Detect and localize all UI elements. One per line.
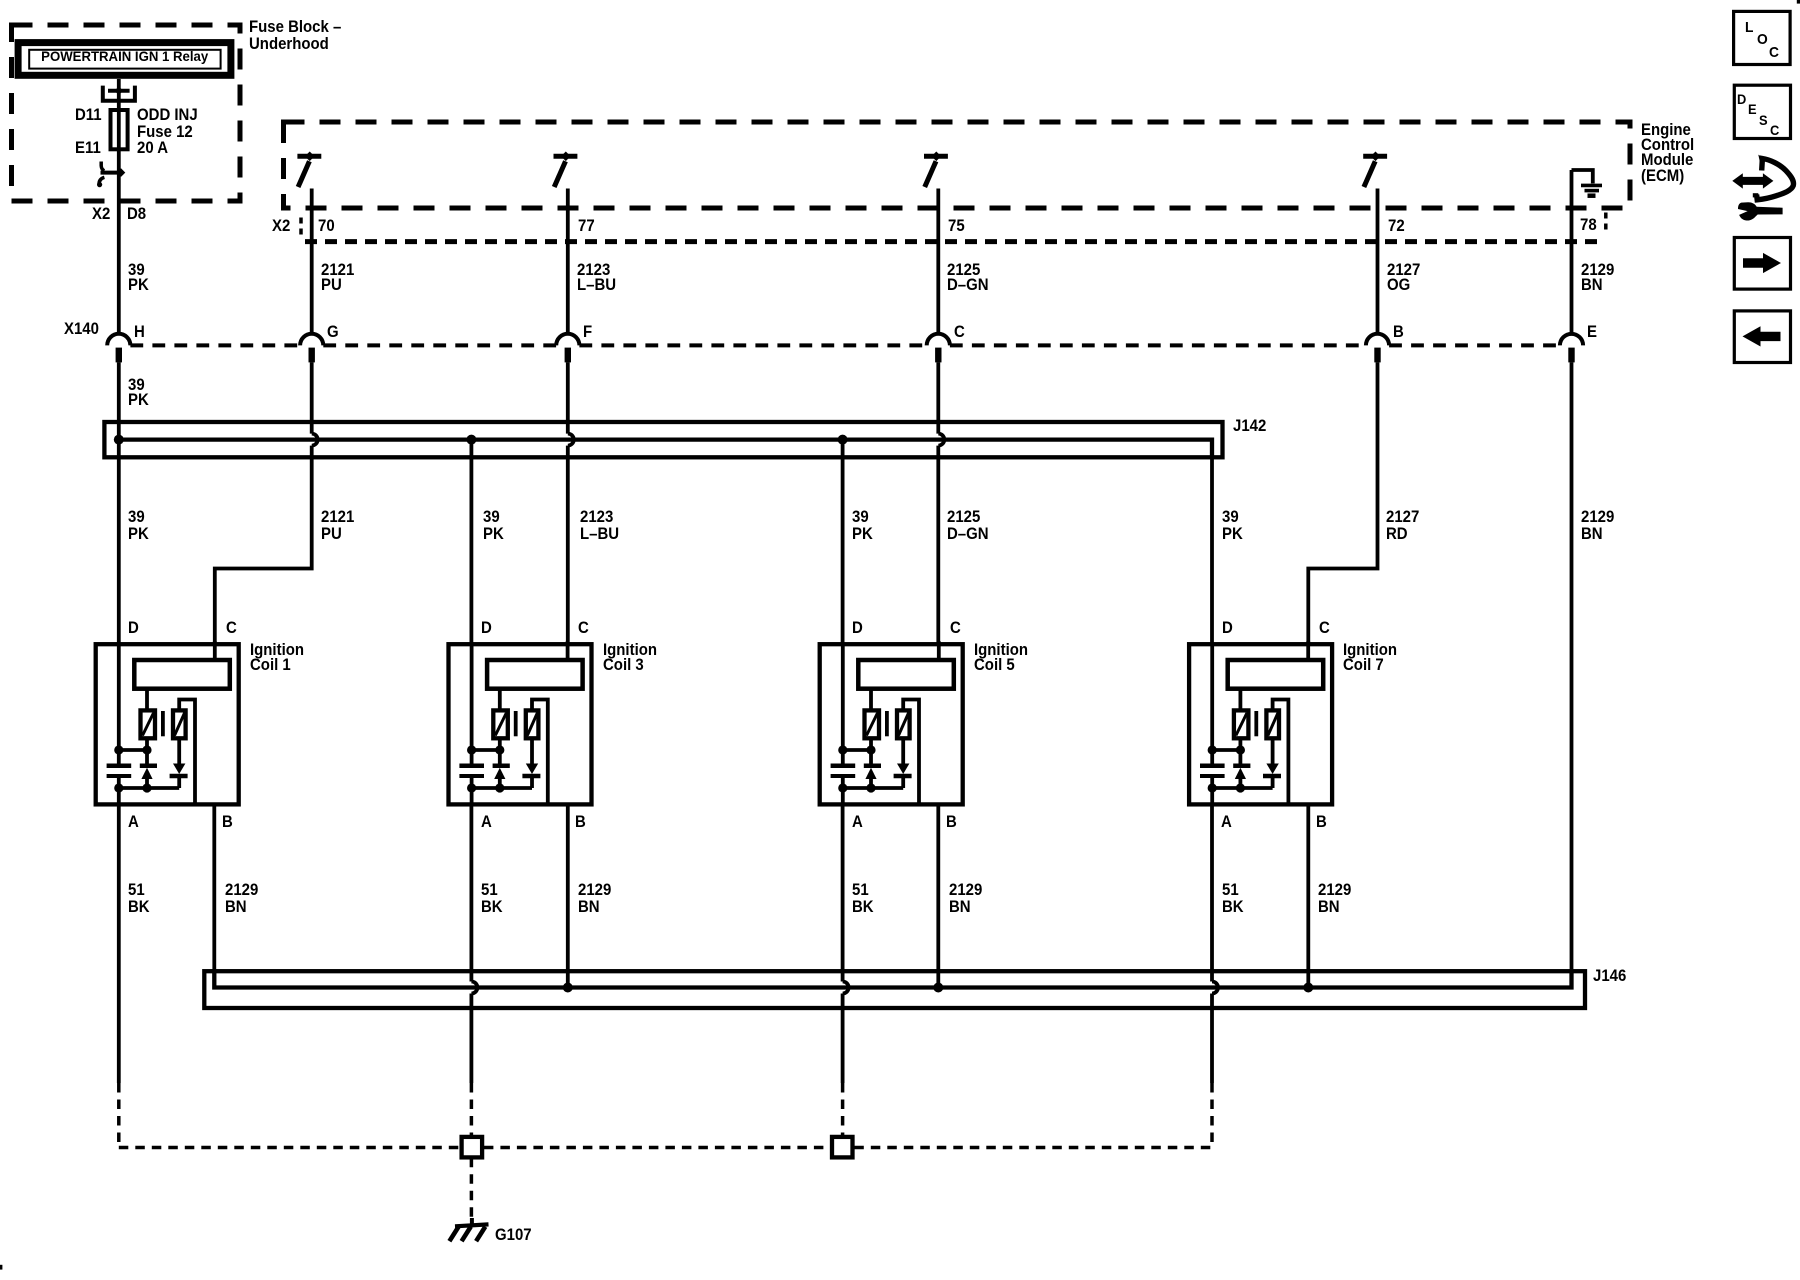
splice pack J142 housing <box>104 422 1222 457</box>
ignition coil 7 zener diode <box>1233 764 1250 769</box>
ignition coil 1 pin A internal wire <box>117 776 121 804</box>
wire 2127 OG pin 72 to X140 B <box>1376 189 1380 335</box>
wire 51 BK ignition coil 7 pin A to J146 crossover <box>1210 804 1214 981</box>
connector X140 pin F mating terminal stub <box>565 348 571 363</box>
ignition coil 7 pin C internal wire <box>1306 641 1310 662</box>
ignition coil 5 secondary winding L2 <box>897 710 910 738</box>
label: Ignition Coil 7 <box>1343 642 1397 673</box>
ignition coil 1 secondary winding L2 <box>173 710 186 738</box>
label: wire 39 PK (coil5 D) <box>852 509 873 542</box>
ignition coil 1 zener diode <box>140 764 157 769</box>
label: POWERTRAIN IGN 1 Relay <box>32 50 218 64</box>
splice pack J146 housing <box>204 971 1585 1008</box>
label: wire 2127 RD (coil7 C) <box>1386 509 1419 542</box>
junction coil 3 pin B at J146 <box>563 983 573 993</box>
ignition coil 3 zener diode <box>493 764 510 769</box>
LOC hotspot box <box>1734 11 1791 64</box>
ignition coil 5 primary bottom lead <box>869 738 873 766</box>
ignition coil 5 case <box>820 644 963 804</box>
connector X140 pin B half-circle terminal <box>1366 334 1389 346</box>
label: wire 51 BK coil 3 <box>481 882 503 915</box>
wire 2123 L-BU X140 F to J142 crossover <box>566 362 570 433</box>
label: wire 2129 BN (right) <box>1581 509 1614 542</box>
label: X2 (fuse block) <box>92 206 110 223</box>
J142 crossover hop of wire 2121 PU <box>312 434 318 446</box>
label: ignition coil 1 pin D <box>128 620 139 637</box>
ECM output driver for pin 70 <box>297 154 321 159</box>
ignition coil 3 capacitor <box>459 764 484 769</box>
ignition coil 1 primary module block <box>134 660 230 689</box>
junction of 39 PK feed at J142 <box>114 435 124 445</box>
wire 51 BK ignition coil 1 pin A down <box>117 804 121 1083</box>
label: wire 2121 PU (top) <box>321 262 354 293</box>
ignition coil 3 secondary winding L2 <box>526 710 539 738</box>
page corner mark top right <box>1797 0 1800 4</box>
J146 crossover hop of coil 3 51 BK <box>471 982 477 994</box>
label: wire 2127 OG (top) <box>1387 262 1420 293</box>
label: wire 51 BK coil 7 <box>1222 882 1244 915</box>
page corner mark bottom left <box>0 1265 2 1270</box>
label: ODD INJ Fuse 12 20 A <box>137 107 198 156</box>
connector X140 pin G half-circle terminal <box>300 334 323 346</box>
label: Fuse Block - Underhood <box>249 19 341 52</box>
wire 2125 D-GN to ignition coil 5 pin C <box>936 446 940 645</box>
back arrow glyph <box>1743 326 1781 346</box>
ignition coil 7 pin A internal wire <box>1210 776 1214 804</box>
label: ignition coil 3 pin A <box>481 814 492 831</box>
wire 39 PK J142 to ignition coil 3 pin D <box>469 440 473 645</box>
wire 2129 BN ignition coil 7 pin B to J146 <box>1306 804 1310 987</box>
label: ECM pin 72 <box>1388 218 1405 235</box>
dashed ground rail <box>119 1146 1212 1150</box>
splice pack J146 bus bar <box>214 969 1571 987</box>
ignition coil 1 primary winding lead <box>145 689 149 711</box>
junction tap to ignition coil 3 pin D <box>466 435 476 445</box>
label: wire 2123 L-BU (coil3 C) <box>580 509 619 542</box>
ignition coil 5 primary module block <box>858 660 954 689</box>
ignition coil 3 primary winding L1 <box>493 710 508 738</box>
label: wire 39 PK (coil3 D) <box>483 509 504 542</box>
connector X140 pin E half-circle terminal <box>1560 334 1583 346</box>
ignition coil 5 upper junction rail <box>843 748 871 752</box>
X2 connector left tick <box>299 218 303 237</box>
label: X140 pin B <box>1393 324 1404 341</box>
label: Ignition Coil 3 <box>603 642 657 673</box>
ignition coil 7 pin D internal wire <box>1210 644 1214 766</box>
label: wire 39 PK (top) <box>128 262 149 293</box>
back arrow hotspot box <box>1734 311 1790 363</box>
ignition coil 7 primary winding L1 <box>1234 710 1249 738</box>
ignition coil 5 core <box>885 711 889 736</box>
label: ignition coil 1 pin A <box>128 814 139 831</box>
ignition coil 5 lower junction rail <box>843 786 903 790</box>
wire 2123 L-BU pin 77 to X140 F <box>566 189 570 335</box>
label: Ignition Coil 5 <box>974 642 1028 673</box>
ignition coil 1 secondary diode <box>177 738 181 764</box>
ignition coil 1 secondary output lead to pin B <box>179 700 195 805</box>
diagnostic arrows and wrench icon <box>1732 155 1793 221</box>
wire 2129 BN ignition coil 5 pin B to J146 <box>936 804 940 987</box>
ignition coil 7 capacitor <box>1200 764 1225 769</box>
ignition coil 1 case <box>96 644 239 804</box>
wire 2121 PU pin 70 to X140 G <box>310 189 314 335</box>
label: fuse pin E11 <box>75 140 101 157</box>
ignition coil 5 primary winding L1 <box>865 710 880 738</box>
ignition coil 3 secondary output lead to pin B <box>532 700 548 805</box>
label: splice pack J146 <box>1593 968 1626 985</box>
connector X140 pin G mating terminal stub <box>309 348 315 363</box>
dashed ground wire from coil 5 pin A <box>841 1083 845 1137</box>
ignition coil 5 capacitor <box>831 764 856 769</box>
label: ignition coil 3 pin C <box>578 620 589 637</box>
label: X140 pin G <box>327 324 339 341</box>
wire 2127 RD X140 B dogleg to ignition coil 7 pin C <box>1308 362 1377 644</box>
ignition coil 1 <box>96 641 239 804</box>
ignition coil 1 upper junction rail <box>119 748 147 752</box>
label: ignition coil 7 pin D <box>1222 620 1233 637</box>
fuse block underhood enclosure (dashed) <box>12 25 241 201</box>
label: ignition coil 3 pin D <box>481 620 492 637</box>
label: X140 pin C <box>954 324 965 341</box>
label: wire 2129 BN coil 7 <box>1318 882 1351 915</box>
ignition coil 3 primary module block <box>487 660 582 689</box>
label: splice pack J142 <box>1233 418 1266 435</box>
wire 51 BK ignition coil 3 pin A to J146 crossover <box>469 804 473 981</box>
ignition coil 1 primary winding L1 <box>141 710 156 738</box>
label: ground G107 <box>495 1227 532 1244</box>
wire 2121 PU dogleg to ignition coil 1 pin C <box>215 446 312 645</box>
connector X140 pin C mating terminal stub <box>935 348 941 363</box>
ECM output driver for pin 77 <box>554 154 578 159</box>
ignition coil 1 pin D internal wire <box>117 644 121 766</box>
wire from relay to fuse <box>117 79 121 163</box>
relay output terminal symbol <box>108 89 130 93</box>
label: wire 2129 BN coil 3 <box>578 882 611 915</box>
ignition coil 7 secondary output lead to pin B <box>1273 700 1289 805</box>
ignition coil 1 core <box>161 711 165 736</box>
ignition coil 7 primary module block <box>1228 660 1324 689</box>
label: wire 2129 BN coil 1 <box>225 882 258 915</box>
label: ignition coil 7 pin A <box>1221 814 1232 831</box>
ground G107 symbol <box>470 1218 474 1227</box>
connector X140 pin H mating terminal stub <box>116 348 122 363</box>
ground splice square at coil 3 column <box>462 1137 483 1158</box>
label: X140 pin F <box>583 324 592 341</box>
label: connector X140 <box>64 321 99 338</box>
ignition coil 7 primary winding lead <box>1239 689 1243 711</box>
ignition coil 3 primary winding lead <box>498 689 502 711</box>
ignition coil 3 secondary diode <box>530 738 534 764</box>
DESC hotspot box <box>1734 85 1790 138</box>
connector X140 pin E mating terminal stub <box>1568 348 1574 363</box>
wire 2125 D-GN pin 75 to X140 C <box>936 189 940 335</box>
dashed ground wire from coil 1 pin A <box>117 1083 121 1148</box>
label: X2 (ECM) <box>272 218 290 235</box>
ignition coil 7 upper junction rail <box>1212 748 1240 752</box>
label: ignition coil 3 pin B <box>575 814 586 831</box>
connector X140 pin B mating terminal stub <box>1374 348 1380 363</box>
dashed ground wire from coil 7 pin A <box>1210 1083 1214 1148</box>
wire 39 PK X140 H down through J142 to ignition coil 1 pin D <box>117 362 121 644</box>
label: pin D8 <box>127 206 146 223</box>
ECM output driver for pin 75 <box>924 154 948 159</box>
wire 2123 L-BU to ignition coil 3 pin C <box>566 446 570 645</box>
ignition coil 3 pin A internal wire <box>470 776 474 804</box>
X2 connector dotted line of ECM <box>305 239 1605 244</box>
label: ignition coil 7 pin C <box>1319 620 1330 637</box>
ignition coil 1 primary bottom lead <box>145 738 149 766</box>
wire 2129 BN pin 78 to X140 E <box>1570 170 1574 334</box>
relay K: POWERTRAIN IGN 1 Relay label box <box>18 43 231 76</box>
dashed ground wire from coil 3 pin A <box>470 1083 474 1137</box>
junction tap to ignition coil 5 pin D <box>838 435 848 445</box>
X2 connector right tick <box>1604 213 1608 232</box>
ECM output driver for pin 72 <box>1363 154 1387 159</box>
J146 crossover hop of coil 7 51 BK <box>1212 982 1218 994</box>
fuse 12 ODD INJ 20 A <box>111 110 128 149</box>
label: wire 39 PK (coil7 D) <box>1222 509 1243 542</box>
ignition coil 5 pin D internal wire <box>841 644 845 766</box>
ignition coil 5 primary winding lead <box>869 689 873 711</box>
label: wire 2121 PU (coil1 C) <box>321 509 354 542</box>
J146 crossover hop of coil 5 51 BK <box>843 982 849 994</box>
ignition coil 5 pin A internal wire <box>841 776 845 804</box>
ignition coil 3 upper junction rail <box>472 748 500 752</box>
wire 2121 PU X140 G to J142 crossover <box>310 362 314 433</box>
ignition coil 3 case <box>449 644 592 804</box>
label: DESC icon letters <box>1737 91 1746 107</box>
splice pack J142 bus bar <box>119 440 1212 457</box>
J142 crossover hop of wire 2123 L-BU <box>568 434 574 446</box>
label: fuse pin D11 <box>75 107 102 124</box>
label: wire 2129 BN (top) <box>1581 262 1614 293</box>
label: ignition coil 1 pin C <box>226 620 237 637</box>
wire 51 BK ignition coil 5 pin A to J146 crossover <box>841 804 845 981</box>
label: ignition coil 5 pin B <box>946 814 957 831</box>
connector X140 pin F half-circle terminal <box>556 334 579 346</box>
label: wire 2129 BN coil 5 <box>949 882 982 915</box>
ignition coil 3 core <box>514 711 518 736</box>
wire 2125 D-GN X140 C to J142 crossover <box>936 362 940 433</box>
label: wire 39 PK below X140 <box>128 377 149 408</box>
ignition coil 3 lower junction rail <box>472 786 532 790</box>
wire 39 PK from fuse block pin X2-D8 to X140 pin H <box>117 163 121 334</box>
label: wire 2125 D-GN (coil5 C) <box>947 509 989 542</box>
dashed wire from splice square to ground G107 <box>470 1158 474 1218</box>
ignition coil 3 pin C internal wire <box>566 641 570 662</box>
label: ECM pin 78 <box>1580 217 1597 234</box>
label: ECM pin 77 <box>578 218 595 235</box>
ignition coil 3 pin D internal wire <box>470 644 474 766</box>
ignition coil 7 primary bottom lead <box>1239 738 1243 766</box>
label: Engine Control Module (ECM) <box>1641 122 1694 184</box>
label: wire 51 BK coil 5 <box>852 882 874 915</box>
ECM internal ground symbol at pin 78 <box>1572 170 1593 183</box>
ignition coil 5 secondary output lead to pin B <box>903 700 919 805</box>
ignition coil 1 pin C internal wire <box>213 641 217 662</box>
label: wire 39 PK (coil1 D) <box>128 509 149 542</box>
fuse block internal bus terminal symbol <box>101 162 104 171</box>
J142 crossover hop of wire 2125 D-GN <box>938 434 944 446</box>
ignition coil 3 <box>449 641 592 804</box>
connector X140 pin C half-circle terminal <box>927 334 950 346</box>
label: X140 pin H <box>134 324 145 341</box>
ignition coil 5 <box>820 641 963 804</box>
engine control module (ECM) enclosure (dashed) <box>284 122 1631 208</box>
label: LOC icon letters <box>1745 19 1753 36</box>
wire 2129 BN X140 E down to J146 <box>1570 362 1574 969</box>
label: ignition coil 7 pin B <box>1316 814 1327 831</box>
label: ignition coil 5 pin A <box>852 814 863 831</box>
connector X140 pin H half-circle terminal <box>107 334 130 346</box>
label: ECM pin 75 <box>948 218 965 235</box>
ignition coil 7 core <box>1254 711 1258 736</box>
label: wire 2125 D-GN (top) <box>947 262 989 293</box>
label: Ignition Coil 1 <box>250 642 304 673</box>
wire 39 PK J142 to ignition coil 7 pin D <box>1210 450 1214 645</box>
ignition coil 7 secondary diode <box>1271 738 1275 764</box>
ignition coil 1 capacitor <box>107 764 132 769</box>
ignition coil 5 pin C internal wire <box>937 641 941 662</box>
label: X140 pin E <box>1587 324 1597 341</box>
junction coil 5 pin B at J146 <box>933 983 943 993</box>
forward arrow glyph <box>1743 253 1781 273</box>
wire 2129 BN ignition coil 3 pin B to J146 <box>566 804 570 987</box>
label: wire 2123 L-BU (top) <box>577 262 616 293</box>
label: wire 51 BK coil 1 <box>128 882 150 915</box>
label: ignition coil 1 pin B <box>222 814 233 831</box>
ignition coil 1 lower junction rail <box>119 786 179 790</box>
ignition coil 7 case <box>1189 644 1332 804</box>
label: ignition coil 5 pin C <box>950 620 961 637</box>
wire 2129 BN ignition coil 1 pin B to J146 left end <box>212 804 216 969</box>
ignition coil 5 secondary diode <box>901 738 905 764</box>
ignition coil 7 lower junction rail <box>1212 786 1272 790</box>
ground splice square at coil 5 column <box>832 1137 853 1158</box>
ignition coil 5 zener diode <box>864 764 881 769</box>
label: ECM pin 70 <box>318 218 335 235</box>
junction coil 7 pin B at J146 <box>1303 983 1313 993</box>
label: ignition coil 5 pin D <box>852 620 863 637</box>
ignition coil 7 secondary winding L2 <box>1266 710 1279 738</box>
connector X140 dashed line <box>130 343 1560 347</box>
ignition coil 7 <box>1189 641 1332 804</box>
wire 39 PK J142 to ignition coil 5 pin D <box>841 440 845 645</box>
ignition coil 3 primary bottom lead <box>498 738 502 766</box>
forward arrow hotspot box <box>1734 238 1790 290</box>
